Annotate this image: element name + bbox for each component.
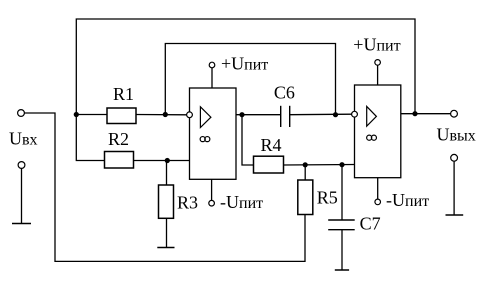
wire: node down to R5 <box>304 165 306 180</box>
node: C7 top junction <box>339 162 344 167</box>
input terminal circle Uвх <box>18 110 25 117</box>
wire: U1 +U pin stem <box>211 68 213 88</box>
wire: node down to R3 <box>166 161 168 186</box>
op-amp U1 -U supply pin circle <box>209 200 215 206</box>
svg-text:R4: R4 <box>261 135 282 155</box>
op-amp U1 body <box>190 88 237 179</box>
wire: R3 bottom stem <box>166 218 168 247</box>
svg-text:-Uпит: -Uпит <box>386 190 429 210</box>
wire: left node down to R2 <box>76 115 104 161</box>
capacitor C6 right plate <box>289 106 291 127</box>
wire: lower-left terminal stem <box>21 168 23 223</box>
lower-right terminal circle <box>451 154 458 161</box>
ground bar under R3 <box>157 247 174 249</box>
svg-text:-Uпит: -Uпит <box>220 192 263 212</box>
node: R1 left junction <box>74 112 79 117</box>
resistor R2 <box>105 152 134 169</box>
resistor R5 <box>298 180 313 215</box>
wire: U2 -U pin stem <box>377 178 379 199</box>
wire: U1 output to C6 <box>236 114 281 116</box>
wire: C6 right to op-amp U2 input <box>290 113 352 116</box>
wire: R2 right to op-amp U1 lower input <box>134 160 190 162</box>
node: C6 right junction <box>333 112 338 117</box>
wire: main row node to R1 <box>76 114 107 116</box>
svg-text:C6: C6 <box>274 83 295 103</box>
wire: U1 -U pin stem <box>211 179 213 200</box>
svg-text:Uвх: Uвх <box>9 129 38 149</box>
op-amp U2 input circle <box>352 111 358 117</box>
op-amp U2 infinity symbol <box>367 135 372 140</box>
op-amp U1 triangle <box>200 107 211 128</box>
wire: R1 right to op-amp U1 input <box>136 114 187 116</box>
op-amp U1 infinity symbol <box>200 137 205 142</box>
op-amp U2 -U supply pin circle <box>375 199 381 205</box>
wire: R4 right to op-amp U2 lower input <box>284 164 355 167</box>
node: R5 top junction <box>303 162 308 167</box>
lower-left terminal circle <box>18 162 25 169</box>
resistor R4 <box>254 156 284 173</box>
wire: U2 output to output terminal <box>401 113 451 115</box>
lower-right terminal bar <box>446 214 464 216</box>
capacitor C7 top plate <box>328 219 355 221</box>
resistor R3 <box>159 185 174 218</box>
op-amp U2 body <box>355 85 401 178</box>
ground bar under C7 <box>335 269 349 271</box>
svg-text:Uвых: Uвых <box>437 125 476 145</box>
svg-text:C7: C7 <box>360 214 381 234</box>
svg-text:+Uпит: +Uпит <box>353 34 400 54</box>
op-amp U1 input circle <box>187 112 193 118</box>
wire: node down to C7 <box>341 165 343 220</box>
wire: lower-right terminal stem <box>453 161 455 215</box>
resistor R1 <box>107 108 136 124</box>
capacitor C6 left plate <box>280 106 282 127</box>
op-amp U1 +U supply pin circle <box>209 62 215 68</box>
node: R2/R3 junction <box>165 158 170 163</box>
wire: top feedback from R1 input node to output node <box>76 19 415 115</box>
capacitor C7 bottom plate <box>328 229 355 231</box>
wire: U1 output down to R4 <box>242 115 254 165</box>
wire: U2 +U pin stem <box>377 65 379 85</box>
node: U1 output junction <box>239 112 244 117</box>
node: R1 right junction <box>163 112 168 117</box>
svg-text:R5: R5 <box>317 188 338 208</box>
svg-text:R3: R3 <box>177 193 198 213</box>
wire: C7 bottom stem <box>341 230 343 270</box>
lower-left terminal bar <box>12 223 31 225</box>
wire: input terminal down to bottom rail and up to R5 bottom <box>25 113 306 261</box>
node: output junction <box>412 111 417 116</box>
wire: second feedback from R1 right node to C6 right node <box>165 44 335 115</box>
svg-text:R2: R2 <box>108 129 129 149</box>
svg-text:+Uпит: +Uпит <box>221 54 268 74</box>
svg-text:R1: R1 <box>113 84 134 104</box>
output terminal circle Uвых <box>451 110 458 117</box>
op-amp U2 +U supply pin circle <box>375 60 381 66</box>
op-amp U2 triangle <box>367 106 377 126</box>
